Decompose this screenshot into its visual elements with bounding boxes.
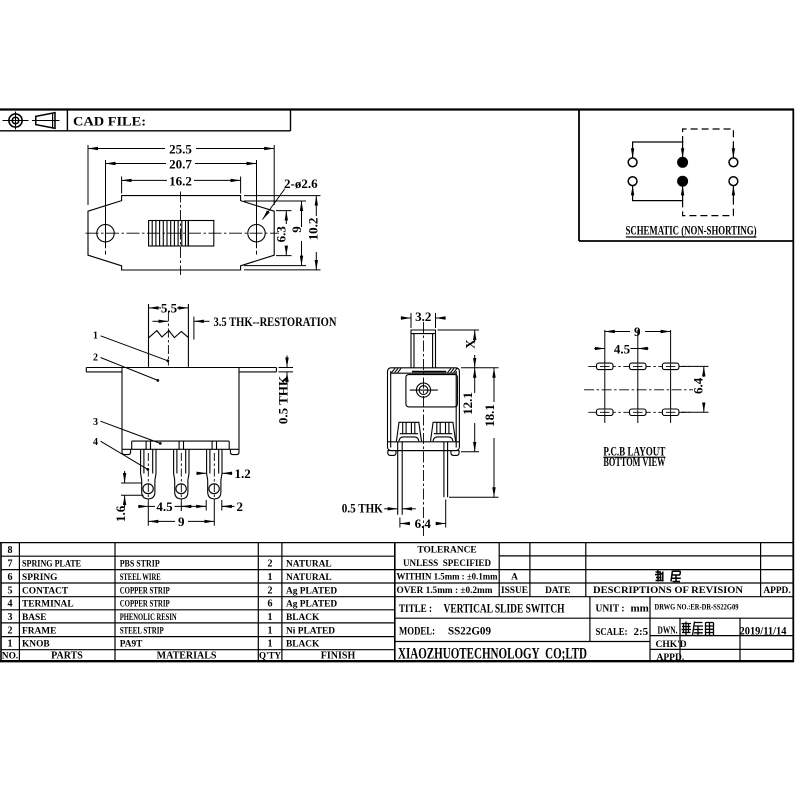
svg-text:6: 6 (268, 599, 273, 610)
flange bottom right (239, 371, 276, 373)
terminal C1 open (729, 158, 738, 167)
row line 596.7 (1, 596, 793, 598)
svg-text:1: 1 (268, 572, 273, 583)
row line 583 (1, 582, 793, 584)
pad r2c3 (662, 409, 679, 416)
dim 4.5 right arrow and dim 2 left arrow joint line (175, 505, 207, 507)
svg-text:Ni PLATED: Ni PLATED (286, 626, 335, 636)
pin 1 outline (141, 449, 156, 499)
pin 1 inner lines (144, 449, 153, 473)
svg-text:COPPER STRIP: COPPER STRIP (120, 586, 170, 596)
pin 2 hole (176, 484, 186, 494)
svg-text:2:5: 2:5 (634, 626, 649, 638)
dim 10.2 line (315, 196, 317, 216)
svg-text:4.5: 4.5 (614, 341, 631, 356)
svg-text:6.3: 6.3 (274, 226, 289, 243)
dim 3.2 arrows (401, 317, 411, 319)
side body top inner line (391, 372, 457, 374)
slider ridge boundary (187, 221, 189, 247)
ext pin bottom (449, 496, 499, 498)
dim 16.2 line (122, 179, 167, 181)
row line 622.9 (1, 622, 395, 624)
row line 556 (1, 555, 793, 557)
svg-text:ISSUE: ISSUE (501, 586, 528, 596)
leader 2-o2.6 (263, 189, 286, 220)
dim 9 extension lines (244, 201, 306, 266)
svg-text:CONTACT: CONTACT (22, 586, 69, 596)
svg-text:SCALE:: SCALE: (596, 626, 628, 638)
schematic box bottom (579, 240, 793, 242)
svg-text:Ag PLATED: Ag PLATED (286, 586, 337, 596)
side knob cap line (411, 333, 436, 335)
svg-text:0.5 THK: 0.5 THK (276, 375, 291, 424)
svg-text:PARTS: PARTS (51, 651, 83, 662)
svg-text:DATE: DATE (545, 586, 570, 596)
svg-text:DWN.: DWN. (658, 625, 678, 636)
side top hatch right (448, 368, 458, 373)
dim 6.4 extension lines (400, 500, 446, 528)
dim 4.5 pcb right arrow (638, 348, 649, 350)
svg-text:CAD FILE:: CAD FILE: (73, 114, 146, 129)
svg-text:UNIT :: UNIT : (596, 602, 625, 614)
svg-text:MATERIALS: MATERIALS (157, 651, 217, 662)
flange top (86, 367, 276, 369)
dim 10.2 extension lines (244, 196, 321, 270)
side central centerline (423, 322, 425, 536)
svg-text:1.2: 1.2 (235, 466, 251, 481)
schematic box left (578, 110, 580, 242)
castle terminal right (431, 422, 456, 441)
side body inner verticals (391, 371, 457, 448)
appd row line 649.4 (650, 648, 793, 650)
pin 3 hole (209, 484, 219, 494)
svg-text:4: 4 (8, 599, 13, 610)
svg-text:PA9T: PA9T (120, 640, 143, 650)
leader part 1 (101, 336, 168, 361)
svg-text:FRAME: FRAME (22, 626, 56, 636)
frame bottom border (0, 660, 794, 662)
svg-text:FINISH: FINISH (321, 651, 356, 662)
frame top border (0, 108, 794, 110)
svg-text:TERMINAL: TERMINAL (22, 600, 74, 610)
terminal C2 open (729, 177, 738, 186)
pin 2 outline (174, 449, 189, 499)
svg-text:9: 9 (289, 226, 304, 233)
svg-text:10.2: 10.2 (305, 218, 320, 241)
col line dwn right (679, 618, 681, 661)
schematic arrow to right bottom terminal (732, 185, 734, 197)
dim 1.6 arrows (124, 471, 126, 483)
base plate top (132, 440, 230, 442)
dim 4.5 line segments (148, 505, 155, 507)
svg-text:COPPER STRIP: COPPER STRIP (120, 600, 170, 610)
svg-text:6.4: 6.4 (415, 516, 432, 531)
chkd row line 635.6 (650, 635, 793, 637)
svg-text:1: 1 (8, 639, 13, 650)
svg-text:2: 2 (8, 625, 13, 636)
revision chinese entry (655, 570, 681, 582)
dim 20.7 line (106, 163, 167, 165)
svg-text:PBS STRIP: PBS STRIP (120, 560, 160, 570)
knob left side (148, 304, 150, 367)
dim 6.3 line (285, 211, 287, 224)
side pin left (398, 451, 403, 515)
top view body outline (88, 196, 274, 270)
pad crossing verticals row1 (605, 364, 671, 369)
dim 9 line (148, 520, 175, 522)
dim 1.2 arrows (196, 472, 206, 474)
ext body bottom (461, 451, 479, 453)
svg-text:BASE: BASE (22, 613, 47, 623)
dim 25.5 line (88, 148, 165, 150)
side body outline (388, 368, 460, 451)
terminal A1 open (628, 158, 637, 167)
foot left (122, 449, 131, 454)
svg-text:KNOB: KNOB (22, 640, 50, 650)
schematic wire dashed bottom (683, 189, 734, 215)
svg-text:16.2: 16.2 (169, 173, 192, 188)
dim 20.7 extension lines (106, 160, 257, 255)
svg-text:7: 7 (8, 559, 13, 570)
table top line (0, 542, 793, 544)
svg-text:4: 4 (93, 437, 98, 448)
svg-text:20.7: 20.7 (169, 157, 192, 172)
svg-text:1: 1 (93, 331, 98, 342)
svg-text:X: X (463, 339, 478, 349)
cad file box bottom (0, 130, 291, 132)
svg-text:XIAOZHUOTECHNOLOGY CO;LTD: XIAOZHUOTECHNOLOGY CO;LTD (398, 644, 587, 662)
svg-text:2: 2 (93, 353, 98, 364)
rivet outer circle (416, 383, 430, 397)
row line 636.6 (1, 636, 395, 638)
dim 6.4 line (400, 523, 409, 525)
col line desc right (760, 543, 762, 597)
svg-text:APPD.: APPD. (763, 586, 790, 596)
col line date right (585, 543, 587, 597)
side foot left (388, 451, 396, 456)
pcb centerline middle (584, 389, 693, 391)
svg-text:6: 6 (8, 572, 13, 583)
col line no (18, 543, 20, 662)
leader part 2 (101, 358, 158, 381)
pin 2 inner lines (177, 449, 186, 473)
svg-text:SS22G09: SS22G09 (448, 625, 491, 637)
ext body top (461, 367, 499, 369)
signature chinese (682, 622, 714, 636)
pin 3 inner lines (210, 449, 219, 473)
dim 0.5 thk front arrows (286, 356, 288, 368)
col line issue right (529, 543, 531, 597)
svg-text:5: 5 (8, 585, 13, 596)
svg-text:DRWG NO.:ER-DR-SS22G09: DRWG NO.:ER-DR-SS22G09 (655, 602, 739, 612)
svg-text:BLACK: BLACK (286, 613, 320, 623)
dim 16.2 extension lines (122, 177, 241, 194)
svg-text:3.2: 3.2 (415, 309, 431, 324)
schematic wire solid bottom (633, 185, 683, 200)
pin 1 base lines (146, 441, 150, 449)
pad r2c2 (630, 409, 647, 416)
dim 1.6 extension lines (121, 483, 144, 495)
svg-text:STEEL STRIP: STEEL STRIP (120, 626, 164, 636)
pcb grid vertical col3 (670, 330, 672, 423)
pin center extension lines (148, 503, 214, 526)
castle terminal left (396, 422, 421, 441)
svg-text:2: 2 (268, 559, 273, 570)
pad inner ticks row1 (600, 365, 675, 367)
dim 12.1 line (474, 368, 476, 380)
pad crossing verticals row2 (605, 410, 671, 415)
svg-text:25.5: 25.5 (169, 142, 192, 157)
restoration arrow left (153, 320, 169, 322)
dim 4.5 pcb line (631, 348, 638, 350)
row line 569.6 (1, 569, 793, 571)
svg-text:mm: mm (631, 602, 649, 614)
svg-text:12.1: 12.1 (460, 392, 475, 415)
dim 5.5 line (149, 307, 162, 309)
svg-text:9: 9 (634, 324, 641, 339)
dim 18.1 line (493, 368, 495, 402)
terminal B1 filled (678, 157, 688, 167)
dim 9 pcb line (605, 331, 630, 333)
svg-text:WITHIN 1.5mm : ±0.1mm: WITHIN 1.5mm : ±0.1mm (397, 573, 498, 583)
svg-text:VERTICAL SLIDE SWITCH: VERTICAL SLIDE SWITCH (444, 600, 565, 615)
top view horizontal centerline (86, 232, 280, 234)
ext knob top (438, 329, 480, 331)
pad r1c1 (597, 363, 614, 370)
col line finish right (394, 543, 396, 662)
pcb centerline row1 (588, 365, 690, 367)
col line sig right (739, 618, 741, 661)
side pin left base lines (398, 442, 403, 451)
side stamped plate (406, 375, 458, 407)
svg-text:2019/11/14: 2019/11/14 (740, 624, 787, 638)
svg-text:1: 1 (268, 625, 273, 636)
projection symbol cone (32, 113, 60, 129)
svg-text:SCHEMATIC (NON-SHORTING): SCHEMATIC (NON-SHORTING) (626, 223, 757, 238)
svg-text:18.1: 18.1 (482, 404, 497, 427)
col line unit right (649, 597, 651, 662)
pcb centerline row2 (588, 411, 690, 413)
dim X line (474, 330, 476, 342)
svg-text:2: 2 (268, 585, 273, 596)
row line 649.7 (1, 649, 395, 651)
title row line 618.2 (395, 617, 794, 619)
flange bottom left (86, 371, 122, 373)
side top slot line (412, 371, 446, 373)
schematic caption underline (626, 236, 757, 238)
restoration arrow right (194, 320, 210, 322)
pin 3 base lines (212, 441, 216, 449)
svg-text:BOTTOM VIEW: BOTTOM VIEW (603, 454, 665, 469)
mounting hole left (97, 225, 114, 242)
side pin right base lines (444, 442, 448, 451)
flange end caps (86, 368, 276, 372)
dim 6.4 pcb line (703, 366, 705, 377)
body bottom (122, 448, 239, 450)
restoration extension line (193, 317, 195, 340)
pin 3 centerline (213, 453, 215, 503)
pad r1c2 (630, 363, 647, 370)
dim 6.4 pcb extension lines (681, 366, 709, 412)
body right side (238, 368, 240, 450)
svg-text:UNLESS SPECIFIED: UNLESS SPECIFIED (403, 559, 491, 569)
svg-text:1.6: 1.6 (113, 505, 128, 522)
base plate sides (132, 441, 230, 449)
svg-text:BLACK: BLACK (286, 640, 320, 650)
rivet horizontal crosshair (410, 389, 438, 391)
svg-text:Ag PLATED: Ag PLATED (286, 600, 337, 610)
svg-text:OVER 1.5mm : ±0.2mm: OVER 1.5mm : ±0.2mm (397, 586, 493, 596)
col line materials (257, 543, 259, 662)
schematic arrow to right top terminal (732, 146, 734, 158)
model row line 641.5 (395, 641, 650, 643)
svg-text:1: 1 (268, 612, 273, 623)
svg-text:CHK'D: CHK'D (656, 640, 687, 650)
pad inner ticks row2 (600, 411, 675, 413)
pad r2c1 (597, 409, 614, 416)
slider ridges (152, 221, 185, 247)
dim 9 line (301, 201, 303, 227)
svg-text:APPD.: APPD. (657, 653, 685, 663)
frame right border (792, 109, 794, 662)
svg-text:SPRING PLATE: SPRING PLATE (22, 560, 81, 570)
svg-text:3: 3 (93, 417, 98, 428)
side base strip top (388, 441, 460, 443)
svg-text:SPRING: SPRING (22, 573, 58, 583)
svg-text:6.4: 6.4 (690, 377, 705, 394)
body left side (121, 368, 123, 450)
svg-text:Q'TY: Q'TY (259, 651, 282, 661)
dim 6.3 extension lines (276, 211, 292, 256)
col line title right (589, 597, 591, 642)
svg-text:1: 1 (268, 639, 273, 650)
dim 25.5 extension lines (88, 145, 274, 205)
pin 1 centerline (147, 453, 149, 503)
slider knob outer rect (149, 221, 214, 247)
svg-text:A: A (511, 573, 518, 583)
pcb grid vertical col1 (604, 330, 606, 423)
pcb caption line1 underline (603, 456, 665, 458)
col line qty (281, 543, 283, 662)
pad r1c3 (662, 363, 679, 370)
dim 3.2 extension lines (411, 313, 436, 328)
side top hatch left (392, 368, 402, 373)
svg-text:TITLE :: TITLE : (399, 603, 432, 615)
svg-text:STEEL WIRE: STEEL WIRE (120, 573, 161, 583)
foot right (230, 449, 239, 454)
col line tolerance right (498, 543, 500, 597)
side pin right (444, 451, 448, 498)
svg-text:MODEL:: MODEL: (399, 625, 435, 637)
side knob inner sides (414, 334, 433, 368)
dim 2 extension lines (206, 500, 222, 511)
svg-text:9: 9 (178, 514, 185, 529)
svg-text:2: 2 (237, 499, 244, 514)
dim 0.5 thk front extension lines (279, 368, 294, 372)
dim 0.5 thk side arrows (384, 508, 398, 510)
schematic wire solid top (633, 142, 683, 158)
svg-text:NATURAL: NATURAL (286, 560, 332, 570)
schematic wire dashed top (683, 129, 734, 154)
leader part 3 (101, 421, 161, 443)
pin 3 outline (207, 449, 222, 499)
cad file box right (290, 110, 292, 131)
svg-text:3: 3 (8, 612, 13, 623)
pin 1 hole (143, 484, 153, 494)
top view vertical centerline (180, 192, 182, 276)
pin 2 base lines (179, 441, 183, 449)
side base strip bottom (388, 450, 460, 452)
svg-text:4.5: 4.5 (156, 499, 173, 514)
pcb grid vertical col2 (637, 330, 639, 423)
svg-text:PHENOLIC RESIN: PHENOLIC RESIN (120, 613, 177, 623)
knob break zigzag spring (149, 331, 189, 338)
side knob outer (411, 330, 436, 368)
pin 2 centerline (180, 453, 182, 503)
dim 2 right arrow (222, 505, 232, 507)
frame left border (0, 543, 2, 662)
projection symbol circle (3, 112, 29, 130)
side foot right (451, 451, 459, 456)
svg-text:8: 8 (8, 545, 13, 556)
knob centerline (167, 312, 169, 366)
knob right side (187, 304, 189, 367)
row line 609.8 (1, 609, 395, 611)
rivet inner circle (419, 386, 428, 395)
terminal A2 open (628, 177, 637, 186)
svg-text:TOLERANCE: TOLERANCE (417, 546, 476, 556)
mounting hole right (248, 225, 265, 242)
dim 2 tail line (222, 505, 235, 507)
terminal B2 filled (678, 176, 688, 186)
dim 4.5 pcb left arrow (594, 348, 605, 350)
svg-text:DESCRIPTIONS OF REVISION: DESCRIPTIONS OF REVISION (593, 586, 743, 596)
svg-text:5.5: 5.5 (161, 300, 178, 315)
col line parts (114, 543, 116, 662)
cad file box divider (66, 110, 68, 131)
svg-text:0.5 THK: 0.5 THK (342, 501, 384, 516)
leader part 4 (101, 441, 148, 469)
svg-text:2-ø2.6: 2-ø2.6 (284, 176, 318, 191)
dim 4.5 left arrow (138, 505, 148, 507)
svg-text:NATURAL: NATURAL (286, 573, 332, 583)
svg-text:NO.: NO. (2, 652, 18, 662)
svg-text:3.5 THK--RESTORATION: 3.5 THK--RESTORATION (214, 314, 337, 329)
